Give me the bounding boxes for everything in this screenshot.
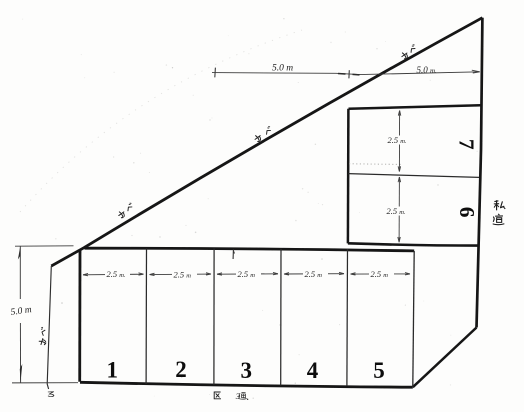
dimension line vertical upper part xyxy=(19,247,21,300)
wire: wall diagonal (long hypotenuse) xyxy=(51,18,482,266)
dimension line vertical lower part xyxy=(19,323,21,383)
dim stall 3 xyxy=(217,272,278,275)
period xyxy=(247,399,248,400)
svg-text:3: 3 xyxy=(235,391,240,401)
arrow smear left of mid tick xyxy=(338,73,346,76)
label kabe lower diagonal xyxy=(117,210,126,219)
extension tick top xyxy=(15,245,74,247)
tick at middle xyxy=(348,70,350,78)
dim stall 5 xyxy=(351,273,411,276)
dim stall 4 xyxy=(284,272,344,275)
arrow up (wedge) xyxy=(18,247,21,260)
wire: bottom-right corner diagonal xyxy=(413,328,477,388)
arrow smear right of mid tick xyxy=(353,73,360,76)
svg-text:5.0 m: 5.0 m xyxy=(10,305,32,318)
tick at left end xyxy=(214,68,217,78)
stall divider 2|3 xyxy=(213,249,215,385)
svg-text:5.0 m.: 5.0 m. xyxy=(417,65,438,75)
arrowhead right xyxy=(472,70,480,73)
wire: left edge of stalls xyxy=(78,250,81,382)
wire: bottom edge of stalls xyxy=(80,382,413,387)
svg-text:3: 3 xyxy=(241,358,253,383)
label ro mark bottom-left xyxy=(48,392,53,397)
wire: right boundary edge xyxy=(477,18,483,328)
label stall 7 (rotated) xyxy=(455,139,479,150)
svg-text:4: 4 xyxy=(307,358,319,383)
svg-text:6: 6 xyxy=(455,207,479,218)
tick mark on top edge xyxy=(232,250,234,260)
wire: thin wall line lower-left xyxy=(47,266,51,389)
label shidou SHI xyxy=(494,200,505,210)
arrow down (wedge) xyxy=(20,364,23,383)
label kabe upper diagonal xyxy=(400,51,409,60)
stall divider 4|5 xyxy=(346,249,349,386)
svg-text:5: 5 xyxy=(373,358,385,383)
label kabe middle diagonal xyxy=(253,133,262,142)
faint dotted guide line in box xyxy=(349,163,402,166)
svg-text:2: 2 xyxy=(175,357,187,382)
wire: top edge of stalls xyxy=(85,248,415,251)
extension tick bottom xyxy=(12,382,78,384)
label kabe left wall (vertical) xyxy=(39,327,46,335)
scan speckle noise xyxy=(172,67,173,68)
label stall 6 (rotated) xyxy=(455,207,479,218)
label shidou MICHI xyxy=(493,214,504,225)
wire: thin right edge of stall block xyxy=(413,251,414,387)
wire: box 6/7 top edge xyxy=(349,105,481,109)
wire: box 6/7 bottom edge xyxy=(348,243,479,245)
faint scan arc top-left xyxy=(20,30,302,212)
wire: divider 6|7 xyxy=(348,174,479,178)
stall divider 1|2 xyxy=(145,249,147,385)
stall divider 3|4 xyxy=(280,249,282,386)
svg-text:7: 7 xyxy=(455,139,479,150)
dim 6 vertical xyxy=(398,177,401,242)
dim stall 2 xyxy=(150,273,212,276)
label caption TOU xyxy=(239,392,246,399)
svg-text:1: 1 xyxy=(107,358,119,383)
dim stall 1 xyxy=(83,273,144,276)
dimension line top xyxy=(212,72,480,75)
label caption KU xyxy=(214,392,221,399)
wire: box 6/7 left edge xyxy=(347,109,350,244)
svg-text:5.0 m: 5.0 m xyxy=(272,64,293,74)
dim 7 vertical xyxy=(398,111,401,172)
